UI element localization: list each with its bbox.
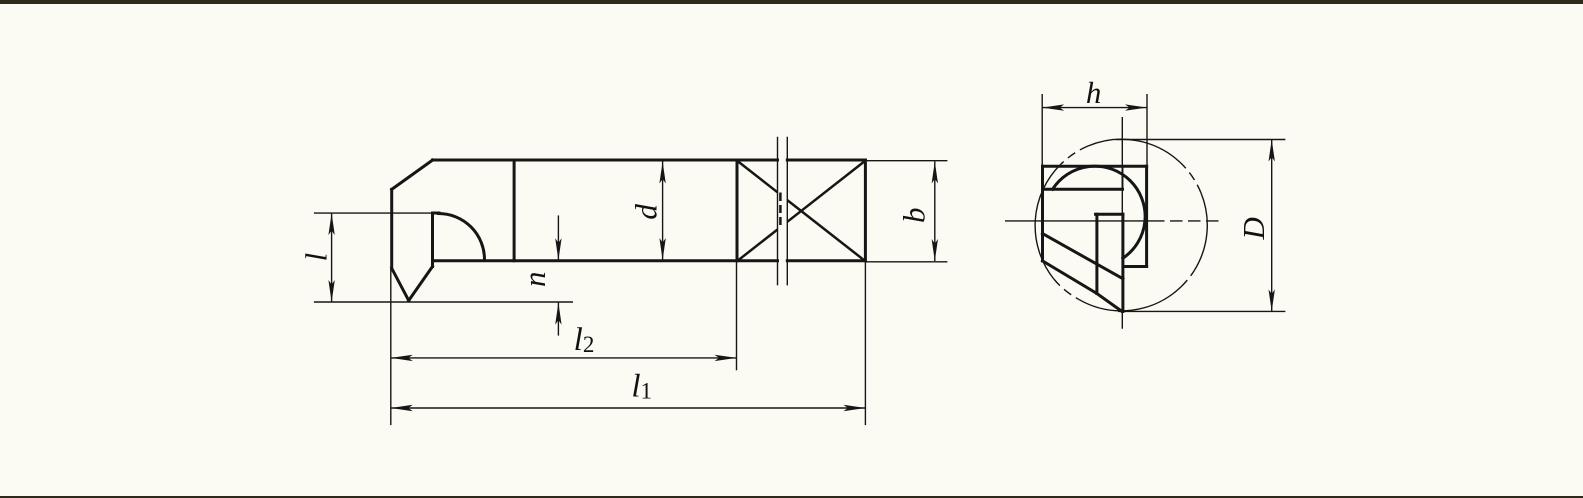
dimension l2: right arrowhead bbox=[715, 355, 737, 361]
side view: head chamfer bbox=[392, 160, 433, 189]
end view: cutting edge diagonal B bbox=[1043, 261, 1122, 312]
dimension n: lower pointer line bbox=[557, 303, 559, 336]
svg-text:l: l bbox=[298, 253, 333, 262]
dimension d: lower arrowhead bbox=[659, 238, 665, 260]
dimension l: dimension line bbox=[331, 213, 333, 302]
svg-text:D: D bbox=[1236, 217, 1271, 240]
top border bar bbox=[0, 0, 1583, 4]
dimension d: upper arrowhead bbox=[659, 162, 665, 184]
dimension l: top extension line bbox=[314, 212, 433, 214]
svg-text:n: n bbox=[517, 271, 552, 287]
side view: head left edge bbox=[390, 189, 393, 268]
dimension b: upper arrowhead bbox=[932, 162, 938, 184]
svg-text:d: d bbox=[628, 204, 663, 220]
svg-text:b: b bbox=[897, 207, 932, 223]
dimension l1: dimension line bbox=[391, 407, 866, 409]
end view: tool left edge bbox=[1041, 166, 1044, 261]
dimension D: top extension line bbox=[1116, 139, 1285, 141]
end view: hole circle D solid arc right bbox=[1194, 193, 1207, 271]
dimension n: up arrowhead bbox=[555, 303, 561, 325]
side view: shank bottom edge right of break bbox=[787, 259, 865, 262]
side view: insert nose arc bbox=[439, 214, 485, 260]
side view: insert top edge bbox=[433, 212, 440, 215]
end view: upper center vertical edge bbox=[1122, 166, 1124, 189]
end view: horizontal center line dash-dot part bbox=[1152, 220, 1221, 222]
bottom border bar bbox=[0, 496, 1583, 498]
dimension D: dimension line bbox=[1271, 140, 1273, 312]
end view: center vertical tool edge bbox=[1121, 214, 1124, 311]
side view: square-section left edge bbox=[736, 160, 739, 261]
side view: tip V left edge bbox=[392, 268, 409, 300]
dimension b: dimension line bbox=[934, 162, 936, 262]
dimension D: bottom extension line bbox=[1118, 310, 1285, 312]
end view: hole circle D solid arc left bbox=[1035, 164, 1061, 279]
dimension h: left extension line bbox=[1041, 94, 1043, 166]
dimension l1: left arrowhead bbox=[391, 405, 413, 411]
side view: square-section diagonal TL-BR left part bbox=[737, 161, 778, 193]
dimension h: left arrowhead bbox=[1042, 104, 1064, 110]
side view: square-section diagonal TL-BR right part bbox=[787, 200, 865, 261]
end view: hole circle D dash arc lower-right bbox=[1181, 271, 1194, 287]
dimension l: lower arrowhead bbox=[328, 280, 334, 302]
dimension d: dimension line bbox=[662, 162, 664, 261]
side view: square-section diagonal BL-TR right part bbox=[787, 161, 865, 222]
side view: tool right end edge bbox=[864, 160, 867, 261]
dimension D: lower arrowhead bbox=[1269, 289, 1275, 311]
end view: hole circle D solid arc bottom bbox=[1079, 287, 1182, 311]
side view: shank top edge left of break bbox=[433, 159, 778, 162]
dimension l1: right extension line bbox=[864, 262, 866, 425]
end view: head circle arc bbox=[1053, 166, 1146, 258]
dimension h: dimension line bbox=[1042, 107, 1147, 109]
dimension b: bottom extension line bbox=[865, 261, 947, 263]
side view: head-shank divider line bbox=[513, 160, 516, 261]
side view: insert left edge bbox=[431, 213, 434, 267]
dimension l1: right arrowhead bbox=[843, 405, 865, 411]
side view: shank bottom edge left of break bbox=[433, 259, 778, 262]
dimension h: right arrowhead bbox=[1125, 104, 1147, 110]
dimension l2/l1: left extension line bbox=[390, 268, 392, 425]
dimension b: lower arrowhead bbox=[932, 239, 938, 261]
dimension n: down arrowhead bbox=[555, 238, 561, 260]
svg-text:h: h bbox=[1086, 75, 1102, 110]
dimension l: upper arrowhead bbox=[328, 213, 334, 235]
end view: hole circle D solid arc top bbox=[1088, 139, 1180, 162]
dimension l2: right extension line bbox=[736, 262, 738, 370]
dimension h: right extension line bbox=[1146, 94, 1148, 166]
side view: break line 1 bbox=[777, 137, 779, 286]
svg-text:l2: l2 bbox=[574, 322, 595, 358]
end view: vertical center line bbox=[1121, 117, 1123, 329]
dimension l2: dimension line bbox=[391, 357, 737, 359]
side view: break line 2 bbox=[786, 137, 788, 286]
end view: hole circle D dash arc upper-right bbox=[1180, 162, 1201, 193]
dimension n: upper pointer line bbox=[557, 215, 559, 260]
end view: cutting edge diagonal A bbox=[1043, 234, 1123, 279]
dimension l: bottom extension line (tip level) bbox=[314, 301, 573, 303]
side view: square-section diagonal BL-TR left part bbox=[737, 230, 778, 262]
end view: square top edge bbox=[1043, 165, 1147, 168]
end view: square bottom edge partial bbox=[1124, 265, 1147, 268]
end view: hole circle D dash arc lower-left bbox=[1054, 279, 1079, 299]
end view: hole circle D dash arc upper-left bbox=[1061, 146, 1088, 164]
end view: square right edge bbox=[1145, 166, 1148, 266]
dimension l2: left arrowhead bbox=[391, 355, 413, 361]
end view: notch vertical edge bbox=[1095, 214, 1098, 293]
side view: shank top edge right of break bbox=[787, 159, 865, 162]
end view: step horizontal edge bbox=[1096, 213, 1123, 216]
side view: tip V right edge bbox=[409, 267, 433, 301]
end view: horizontal center line solid part bbox=[1005, 220, 1152, 222]
side view: dashed diagonals inside break gap bbox=[779, 193, 782, 226]
end view: flat chord line bbox=[1043, 188, 1123, 191]
svg-text:l1: l1 bbox=[631, 369, 652, 405]
dimension b: top extension line bbox=[865, 160, 947, 162]
dimension D: upper arrowhead bbox=[1269, 140, 1275, 162]
